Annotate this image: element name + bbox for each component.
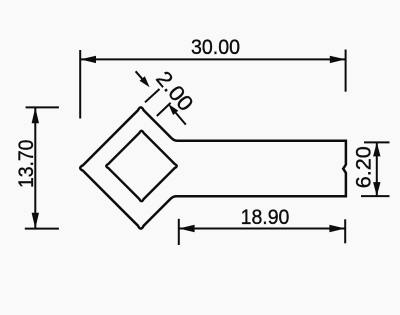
- dim 18.90 right arrowhead: [329, 225, 345, 232]
- dim 13.70 bottom arrowhead: [32, 213, 39, 229]
- dim 2.00 upper arrowhead: [140, 76, 150, 87]
- dim 30.00 right extension line: [345, 50, 347, 92]
- dim 2.00 outer extension line: [145, 89, 160, 102]
- dim 6.20 bottom extension line: [361, 195, 390, 197]
- dim 18.90 left extension line: [178, 219, 180, 245]
- svg-text:30.00: 30.00: [191, 35, 240, 59]
- svg-text:6.20: 6.20: [351, 146, 375, 188]
- dim 30.00 dimension line: [80, 58, 345, 60]
- dim 13.70 bottom extension line: [25, 228, 59, 230]
- svg-text:18.90: 18.90: [241, 205, 290, 229]
- dim 13.70 top arrowhead: [32, 107, 39, 123]
- dim 2.00 inner extension line: [157, 103, 171, 116]
- dim 6.20 dimension line: [376, 142, 378, 196]
- dim 18.90 dimension line: [179, 228, 345, 230]
- dim 30.00 right arrowhead: [330, 56, 346, 63]
- dim 18.90 right extension line: [344, 219, 346, 243]
- dim 6.20 top extension line: [364, 141, 390, 143]
- svg-text:13.70: 13.70: [14, 140, 38, 189]
- dim 30.00 left extension line: [79, 50, 81, 119]
- dim 6.20 bottom arrowhead: [373, 182, 380, 196]
- dim 2.00 lower leader line: [172, 108, 186, 124]
- part outline: diamond body with bar tail and break notch: [80, 107, 346, 228]
- dim 2.00 upper leader line: [136, 71, 146, 83]
- dim 13.70 top extension line: [26, 106, 59, 108]
- dim 6.20 top arrowhead: [373, 142, 380, 156]
- dim 13.70 dimension line: [34, 107, 36, 228]
- dim 2.00 lower arrowhead: [168, 104, 178, 115]
- dim 30.00 left arrowhead: [80, 56, 96, 63]
- dim 18.90 left arrowhead: [179, 225, 195, 232]
- square hole in diamond body: [106, 131, 176, 201]
